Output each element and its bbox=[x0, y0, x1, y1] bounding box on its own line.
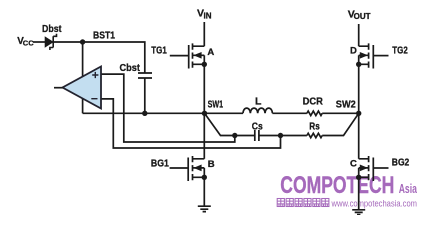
svg-text:C: C bbox=[350, 158, 357, 169]
svg-text:CC: CC bbox=[23, 38, 34, 47]
svg-text:TG2: TG2 bbox=[392, 44, 408, 56]
svg-text:IN: IN bbox=[204, 12, 212, 21]
op-amp U1 driver bbox=[54, 67, 101, 109]
wire BG2 gate bbox=[373, 167, 388, 169]
wire BST1 vertical to op-amp top bbox=[82, 42, 84, 78]
transistor TG2 (MOSFET mirrored) bbox=[359, 43, 374, 68]
wire BG2 source to ground bbox=[358, 177, 360, 209]
svg-text:DCR: DCR bbox=[303, 96, 324, 108]
resistor DCR bbox=[307, 111, 322, 115]
wire TG1 gate bbox=[170, 55, 189, 57]
wire BG1 source to ground bbox=[203, 177, 205, 205]
svg-text:BST1: BST1 bbox=[93, 29, 115, 41]
watermark logo COMPOTECH Asia bbox=[280, 172, 417, 199]
wire Rs diagonal to SW2 bbox=[322, 113, 359, 135]
svg-text:Cs: Cs bbox=[252, 121, 263, 133]
svg-text:BG2: BG2 bbox=[392, 156, 410, 168]
transistor BG2 (MOSFET mirrored) bbox=[359, 156, 374, 181]
wire op-amp plus input bbox=[101, 74, 235, 142]
wire op-amp minus input bbox=[101, 99, 281, 148]
wire TG2 source to SW2 bbox=[358, 64, 360, 113]
wire TG1 source to SW1 bbox=[203, 64, 205, 113]
wire op-amp bottom to main line bbox=[82, 98, 84, 113]
ground (BG1) bbox=[198, 206, 211, 211]
transistor BG1 (MOSFET) bbox=[188, 156, 204, 181]
wire VIN to TG1 drain bbox=[203, 22, 205, 46]
node dot BG1 source bbox=[202, 175, 207, 180]
svg-text:Dbst: Dbst bbox=[42, 23, 62, 35]
svg-text:A: A bbox=[207, 47, 214, 58]
svg-text:www.compotechasia.com: www.compotechasia.com bbox=[331, 199, 418, 209]
inductor L bbox=[243, 108, 272, 113]
wire BG1 gate bbox=[170, 167, 188, 169]
svg-text:COMPOTECH: COMPOTECH bbox=[280, 172, 394, 199]
node Cs right dot bbox=[278, 133, 283, 138]
node SW2 dot bbox=[356, 111, 361, 116]
svg-text:B: B bbox=[208, 159, 215, 170]
svg-text:Cbst: Cbst bbox=[120, 62, 141, 74]
node dot TG1 source bbox=[202, 62, 207, 67]
svg-text:OUT: OUT bbox=[354, 12, 371, 21]
wire SW1 to BG1 drain bbox=[203, 113, 205, 159]
node Cs left dot bbox=[232, 133, 237, 138]
capacitor Cbst bbox=[138, 73, 152, 113]
watermark chinese chars bbox=[277, 199, 329, 207]
node BST1 dot bbox=[80, 39, 85, 44]
wire VOUT to TG2 drain bbox=[358, 24, 360, 46]
transistor TG1 (MOSFET) bbox=[189, 43, 205, 68]
svg-text:SW2: SW2 bbox=[336, 99, 356, 111]
resistor Rs bbox=[307, 133, 322, 137]
node dot TG2 source bbox=[356, 62, 361, 67]
node dot BG2 source bbox=[356, 175, 361, 180]
wire SW1 diagonal to Cs branch bbox=[205, 113, 255, 135]
wire DCR to SW2 bbox=[322, 112, 359, 114]
svg-text:BG1: BG1 bbox=[151, 157, 169, 169]
node Cbst junction dot bbox=[142, 111, 147, 116]
wire main horizontal line SW1 bbox=[83, 112, 243, 114]
node SW1 dot bbox=[202, 111, 207, 116]
wire VCC to diode bbox=[33, 41, 46, 43]
svg-text:SW1: SW1 bbox=[208, 99, 224, 111]
svg-text:L: L bbox=[255, 95, 262, 107]
capacitor Cs bbox=[255, 130, 259, 141]
wire SW2 to BG2 drain bbox=[358, 113, 360, 159]
diode Dbst bbox=[45, 34, 56, 50]
wire Cs to Rs bbox=[259, 135, 307, 137]
ground (BG2) bbox=[352, 210, 365, 215]
svg-text:D: D bbox=[350, 46, 357, 57]
wire diode to BST1 node and right to Cbst bbox=[53, 42, 145, 73]
svg-text:TG1: TG1 bbox=[151, 44, 167, 56]
svg-text:Rs: Rs bbox=[309, 120, 320, 132]
wire TG2 gate bbox=[373, 55, 388, 57]
svg-text:Asia: Asia bbox=[399, 182, 418, 196]
wire inductor to DCR bbox=[272, 112, 307, 114]
